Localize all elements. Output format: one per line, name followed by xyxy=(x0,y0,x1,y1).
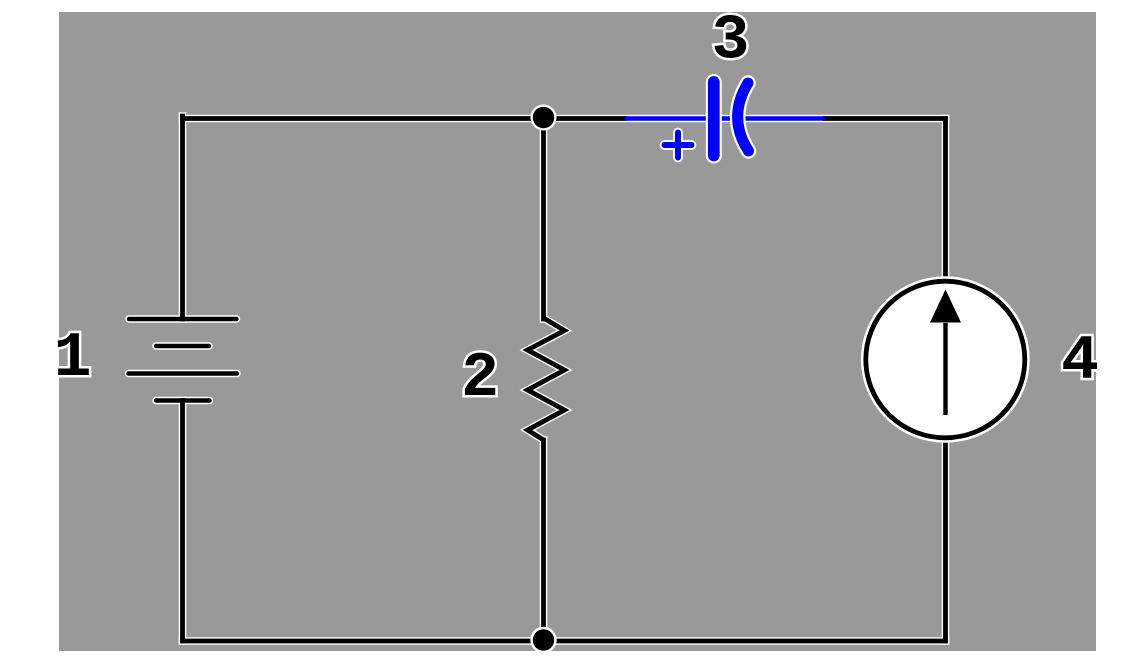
svg-text:3: 3 xyxy=(712,6,750,77)
svg-text:2: 2 xyxy=(461,343,499,414)
svg-text:4: 4 xyxy=(1061,326,1099,397)
svg-text:1: 1 xyxy=(54,323,92,394)
